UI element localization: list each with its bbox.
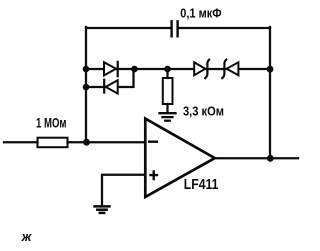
svg-text:1 МОм: 1 МОм [36,115,67,131]
svg-text:ж: ж [21,229,33,244]
svg-text:0,1 мкФ: 0,1 мкФ [180,6,221,21]
svg-text:3,3 кОм: 3,3 кОм [183,103,224,118]
svg-text:LF411: LF411 [184,177,219,193]
